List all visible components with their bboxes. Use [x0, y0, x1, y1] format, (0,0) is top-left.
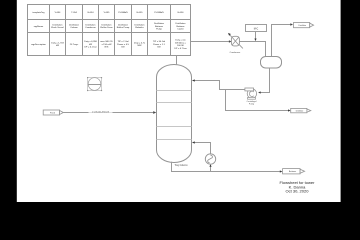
svg-text:area 340 OD: area 340 OD — [100, 40, 113, 43]
pump P-054 centrifugal — [245, 88, 257, 105]
svg-text:Tray Column: Tray Column — [174, 164, 188, 167]
tray lines — [157, 91, 192, 140]
svg-text:Reboiler: Reboiler — [135, 26, 143, 29]
svg-text:x 150 mW: x 150 mW — [102, 44, 113, 46]
svg-text:Distillate: Distillate — [296, 110, 304, 113]
svg-text:Pump: Pump — [156, 29, 162, 31]
svg-text:eqpName: eqpName — [34, 26, 44, 28]
condenser E-054 — [230, 36, 241, 54]
svg-text:Duty = xxx: Duty = xxx — [175, 38, 186, 41]
svg-text:1"-XX-001-XXX-XX: 1"-XX-001-XXX-XX — [92, 111, 110, 113]
svg-text:Duty = 6,358: Duty = 6,358 — [84, 40, 97, 43]
wire reflux line — [195, 81, 245, 90]
wire condenser outlet to drum — [239, 42, 265, 57]
equipment summary table grid — [28, 5, 191, 56]
svg-text:Distillate: Distillate — [299, 24, 307, 27]
svg-text:E-055: E-055 — [137, 12, 144, 14]
svg-text:Column: Column — [70, 27, 78, 29]
title block text — [280, 180, 316, 194]
svg-text:Condenser: Condenser — [230, 51, 241, 54]
table text — [31, 11, 187, 50]
svg-text:Feed: Feed — [50, 113, 56, 115]
svg-text:Bottoms: Bottoms — [155, 25, 164, 28]
reboiler E-055 — [205, 154, 215, 164]
coolant line through condenser — [229, 34, 243, 48]
wire reboiler feed stub — [210, 167, 212, 172]
svg-text:Bottoms: Bottoms — [289, 170, 296, 173]
svg-text:Oct 30, 2020: Oct 30, 2020 — [286, 189, 310, 194]
svg-text:Power = 0.5: Power = 0.5 — [117, 43, 130, 46]
tray column T-054 — [157, 65, 192, 163]
svg-text:Distillation: Distillation — [176, 22, 187, 25]
svg-text:V-055: V-055 — [104, 12, 110, 14]
svg-text:M-C: M-C — [254, 27, 259, 30]
svg-text:Distillation: Distillation — [118, 23, 129, 26]
svg-text:templateTag: templateTag — [33, 11, 46, 14]
svg-text:E-056: E-056 — [178, 12, 185, 14]
svg-text:Distillation: Distillation — [69, 23, 80, 26]
white page — [17, 0, 341, 202]
svg-text:eqpDescription: eqpDescription — [31, 43, 46, 46]
wire drum vapor line — [272, 25, 291, 57]
svg-text:TIP = 50 Gal: TIP = 50 Gal — [153, 41, 166, 43]
wire bottoms line — [172, 162, 281, 172]
stream arrow Distillate vapor — [294, 23, 314, 28]
svg-text:DP = 0.1 bar: DP = 0.1 bar — [84, 46, 97, 49]
wire overhead vapor line — [177, 42, 230, 65]
svg-text:Power = 1.1: Power = 1.1 — [153, 43, 166, 46]
feed arrowhead — [153, 111, 156, 114]
reflux drum V-055 — [261, 57, 282, 69]
energy box M-C — [246, 25, 267, 32]
svg-text:Distillation: Distillation — [135, 23, 146, 26]
svg-text:N/S: N/S — [105, 47, 109, 49]
stream arrow Bottoms — [283, 169, 305, 174]
svg-text:TIP = 2 Gal: TIP = 2 Gal — [117, 41, 129, 43]
svg-text:E-054: E-054 — [88, 12, 95, 14]
wire drum liquid to pump — [261, 68, 270, 93]
svg-text:Flash Vessel: Flash Vessel — [51, 27, 64, 29]
svg-text:Distillation: Distillation — [86, 23, 97, 26]
wire reboiler return — [195, 143, 211, 154]
svg-text:Distillation: Distillation — [102, 23, 113, 26]
wire distillate product line — [226, 90, 289, 111]
feed line label — [89, 110, 113, 113]
svg-text:100 SF: 100 SF — [177, 45, 185, 47]
svg-text:Reflux Drum: Reflux Drum — [100, 26, 112, 29]
svg-text:V-054: V-054 — [55, 12, 61, 14]
svg-text:T-054: T-054 — [71, 12, 77, 14]
svg-text:P-054A/S: P-054A/S — [118, 11, 128, 14]
svg-text:Pump: Pump — [249, 103, 255, 105]
wire feed line — [63, 112, 153, 114]
svg-text:P-055A/S: P-055A/S — [154, 11, 164, 14]
svg-text:kW, Area =: kW, Area = — [175, 41, 186, 44]
svg-text:Duty = 4,7x: Duty = 4,7x — [134, 41, 146, 44]
svg-text:Distillation: Distillation — [154, 22, 165, 25]
svg-text:Duty = 1,703: Duty = 1,703 — [51, 41, 64, 44]
svg-text:Distillation: Distillation — [53, 23, 64, 26]
svg-text:DP = 0.7 bar: DP = 0.7 bar — [174, 47, 187, 50]
svg-text:Bottoms: Bottoms — [176, 25, 185, 28]
flash vessel icon — [87, 77, 102, 91]
stream arrow Distillate — [291, 108, 311, 112]
svg-text:Reflux Pump: Reflux Pump — [117, 27, 130, 29]
svg-text:Cooler: Cooler — [177, 28, 184, 31]
wire M-C drop — [255, 32, 257, 39]
feed stream arrow — [43, 110, 63, 115]
svg-text:20 Trays: 20 Trays — [70, 43, 79, 46]
svg-text:Condenser: Condenser — [85, 26, 96, 29]
